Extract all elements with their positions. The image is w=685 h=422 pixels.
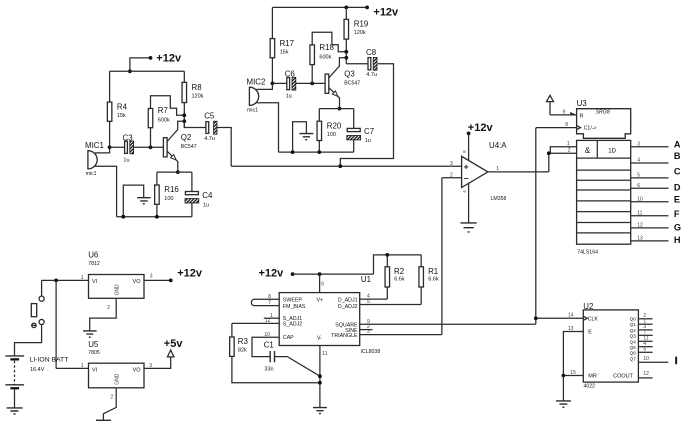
wire: output QB pin 4 xyxy=(631,162,669,164)
wire: R pin 9 xyxy=(550,114,577,116)
wire: output QD pin 6 xyxy=(631,187,669,189)
wire: +12v to R1 R2 top rail xyxy=(374,255,422,274)
battery LI-ION BATT xyxy=(5,356,68,408)
wire: feedback -input to TRIANGLE xyxy=(441,178,443,335)
svg-text:R18: R18 xyxy=(319,43,334,52)
svg-text:TRIANGLE: TRIANGLE xyxy=(331,333,358,339)
power +12v tap op-amp xyxy=(467,122,494,161)
svg-text:82k: 82k xyxy=(238,348,247,354)
wire: U6 input pin 1 xyxy=(42,279,89,281)
resistor R4 xyxy=(107,71,127,147)
resistor R3 xyxy=(230,323,320,382)
svg-text:4022: 4022 xyxy=(584,383,596,389)
svg-text:5: 5 xyxy=(367,299,370,305)
svg-text:MIC1: MIC1 xyxy=(85,141,104,150)
ground: stage1 earth xyxy=(123,185,150,217)
svg-text:R16: R16 xyxy=(164,185,179,194)
svg-text:3: 3 xyxy=(367,329,370,335)
svg-text:C3: C3 xyxy=(123,133,134,142)
svg-text:1u: 1u xyxy=(123,158,129,164)
svg-text:SWEEP: SWEEP xyxy=(283,297,303,303)
svg-text:D: D xyxy=(674,183,681,193)
power +12v terminal xyxy=(169,279,173,283)
svg-text:14: 14 xyxy=(568,313,574,319)
wire: Q0 stub pin 2 xyxy=(638,318,652,320)
IC U2 box xyxy=(583,302,638,389)
ground: U2 earth xyxy=(556,376,571,408)
svg-text:H: H xyxy=(674,235,681,245)
wire: E pin 13 xyxy=(563,332,583,376)
svg-text:R: R xyxy=(580,114,584,120)
svg-text:6.6k: 6.6k xyxy=(394,277,405,283)
svg-text:R19: R19 xyxy=(354,20,369,29)
wire: V- pin 11 down xyxy=(319,346,321,408)
resistor R2 xyxy=(385,255,405,299)
svg-text:V-: V- xyxy=(317,336,322,342)
capacitor C8 xyxy=(340,48,393,166)
svg-text:600k: 600k xyxy=(158,118,170,124)
ground: U1 earth xyxy=(313,408,327,414)
svg-text:FM_BIAS: FM_BIAS xyxy=(283,304,306,310)
svg-text:10: 10 xyxy=(637,196,643,202)
wire: output QA pin 3 xyxy=(631,146,669,148)
capacitor C7 xyxy=(347,109,374,153)
svg-text:+12v: +12v xyxy=(156,53,182,65)
svg-text:100: 100 xyxy=(327,132,336,138)
svg-text:4: 4 xyxy=(637,158,640,164)
wire: output QF pin 11 xyxy=(631,215,669,217)
svg-text:Q0: Q0 xyxy=(630,317,637,322)
power +12v tap stage1 xyxy=(128,53,182,74)
svg-text:15k: 15k xyxy=(117,113,126,119)
wire: Q3 collector to node xyxy=(329,58,347,78)
svg-text:15k: 15k xyxy=(280,49,289,55)
resistor R19 xyxy=(344,7,369,51)
node: R17/C6/MIC2 junction xyxy=(271,82,275,86)
wire: MR pin 15 xyxy=(563,375,583,377)
resistor R20 xyxy=(317,109,342,153)
node: R19/R18/collector junction dots xyxy=(345,52,347,64)
regulator U5 7805 xyxy=(88,340,144,388)
svg-text:10: 10 xyxy=(264,332,270,338)
svg-text:F: F xyxy=(674,209,680,219)
node: data junction xyxy=(547,151,551,155)
svg-text:Q3: Q3 xyxy=(344,70,355,79)
resistor R16 xyxy=(155,172,180,217)
svg-text:GND: GND xyxy=(115,284,121,296)
svg-text:–: – xyxy=(464,173,469,183)
svg-text:Q2: Q2 xyxy=(630,328,637,333)
wire: C1 to V- node diagonal xyxy=(275,357,320,377)
svg-text:VI: VI xyxy=(92,368,98,374)
svg-text:R2: R2 xyxy=(394,267,404,276)
svg-text:9: 9 xyxy=(563,109,566,115)
svg-text:VO: VO xyxy=(133,279,142,285)
svg-text:U3: U3 xyxy=(577,99,588,108)
wire: Q2 collector to node xyxy=(167,121,184,141)
IC U1 box xyxy=(279,275,380,355)
resistor R1 xyxy=(419,255,439,305)
transistor Q3 xyxy=(325,70,360,109)
wire: U6 ground pin 2 xyxy=(90,298,117,331)
svg-text:Q5: Q5 xyxy=(630,345,637,350)
svg-text:Q2: Q2 xyxy=(181,133,192,142)
wire: op-amp -input xyxy=(442,177,462,179)
transistor Q2 xyxy=(163,133,196,172)
svg-text:CLK: CLK xyxy=(588,316,599,322)
svg-text:3: 3 xyxy=(150,274,153,280)
svg-text:12: 12 xyxy=(643,371,649,377)
svg-text:10: 10 xyxy=(643,356,649,362)
svg-text:1: 1 xyxy=(496,166,499,172)
wire: stage2 bottom rail xyxy=(279,151,354,153)
svg-text:D_ADJ1: D_ADJ1 xyxy=(338,297,358,303)
svg-text:1u: 1u xyxy=(286,94,292,100)
wire: op-amp output xyxy=(488,171,549,173)
svg-text:1u: 1u xyxy=(203,202,209,208)
svg-text:LI-ION BATT: LI-ION BATT xyxy=(30,357,69,364)
svg-text:Q6: Q6 xyxy=(630,351,637,356)
svg-text:V+: V+ xyxy=(317,297,324,303)
svg-text:COOUT: COOUT xyxy=(613,374,634,380)
svg-text:5: 5 xyxy=(643,347,646,353)
svg-text:11: 11 xyxy=(322,351,327,357)
node: E/MR junction xyxy=(562,374,566,378)
wire: Q6 stub pin 5 xyxy=(638,351,652,353)
svg-text:1: 1 xyxy=(81,363,84,369)
svg-text:U2: U2 xyxy=(583,302,593,311)
wire: TRIANGLE pin 3 to op-amp feedback xyxy=(360,334,442,336)
node: R8/R7/collector junction dots xyxy=(183,115,185,127)
svg-text:&: & xyxy=(585,146,591,155)
svg-text:C7: C7 xyxy=(364,127,374,136)
svg-text:C1: C1 xyxy=(264,340,274,349)
svg-text:C5: C5 xyxy=(204,111,215,120)
wire: stage1 bottom rail xyxy=(117,216,192,218)
svg-text:MR: MR xyxy=(588,374,597,380)
wire: D_ADJ2 pin 5 to R1 xyxy=(360,304,422,306)
svg-text:R1: R1 xyxy=(428,267,438,276)
capacitor C3 xyxy=(110,133,164,163)
wire: SQUARE pin 9 to U2 clock xyxy=(360,323,536,325)
svg-text:7812: 7812 xyxy=(88,261,100,267)
svg-text:R7: R7 xyxy=(158,106,168,115)
node: C6/R18/Q3 base junction xyxy=(310,82,314,86)
wire: SWEEP/FM_BIAS loop pins 8 7 xyxy=(251,299,279,305)
svg-text:3: 3 xyxy=(149,363,152,369)
wire: U5 ground pin 2 xyxy=(103,388,116,421)
microphone MIC1 xyxy=(85,141,117,217)
node: Q2 emitter junction xyxy=(176,170,180,174)
node: R2 top junction xyxy=(385,253,389,257)
op-amp U4:A xyxy=(462,141,508,202)
switch SW1 xyxy=(15,280,45,356)
svg-text:U6: U6 xyxy=(88,251,99,260)
wire: COOUT stub pin 12 xyxy=(638,377,652,379)
svg-text:+12v: +12v xyxy=(468,122,494,134)
wire: SINE stub pin 2 xyxy=(360,329,373,331)
svg-text:G: G xyxy=(674,222,681,232)
svg-text:+12v: +12v xyxy=(259,267,285,279)
svg-text:C6: C6 xyxy=(285,69,296,78)
ground: U5 earth xyxy=(96,419,111,421)
node: Q3 emitter junction xyxy=(338,107,342,111)
wire: clock pin 8 xyxy=(536,127,577,129)
svg-text:2: 2 xyxy=(107,305,110,311)
svg-text:S_ADJ2: S_ADJ2 xyxy=(283,322,302,328)
svg-text:C1/->: C1/-> xyxy=(584,126,597,132)
svg-text:1u: 1u xyxy=(365,138,371,144)
wire: output QH pin 13 xyxy=(631,240,669,242)
wire: emitter node rail stage2 xyxy=(319,108,353,110)
wire: Q1 stub pin 1 xyxy=(638,323,652,325)
regulator U6 7812 xyxy=(88,251,144,299)
svg-text:Q4: Q4 xyxy=(630,339,637,344)
svg-text:15: 15 xyxy=(570,370,576,376)
svg-text:+12v: +12v xyxy=(373,7,399,19)
IC U3 register cells xyxy=(577,140,631,255)
resistor R7 xyxy=(148,96,184,148)
power arrow U3 reset xyxy=(547,95,554,115)
capacitor C4 xyxy=(185,172,213,217)
ground: stage2 earth xyxy=(293,122,314,152)
wire: feed to U5 input xyxy=(55,280,57,368)
wire: CAP pin 10 to C1 xyxy=(252,337,279,356)
svg-text:2: 2 xyxy=(110,395,113,401)
svg-text:33n: 33n xyxy=(264,367,273,373)
svg-text:C: C xyxy=(674,166,681,176)
wire: U5 output pin 3 to +5v xyxy=(144,357,171,368)
node: R4/C3/MIC1 junction xyxy=(108,145,112,149)
svg-text:1: 1 xyxy=(81,275,84,281)
wire: audio rail to op-amp +input xyxy=(231,165,461,167)
svg-text:1: 1 xyxy=(567,141,570,147)
svg-text:VO: VO xyxy=(133,368,142,374)
resistor R8 xyxy=(182,71,204,115)
wire: output QE pin 10 xyxy=(631,201,669,203)
ground: U6 earth xyxy=(83,331,97,337)
svg-text:16.4V: 16.4V xyxy=(30,367,45,373)
svg-text:U1: U1 xyxy=(361,275,371,284)
wire: Q2 stub pin 3 xyxy=(638,329,652,331)
svg-text:mic1: mic1 xyxy=(86,171,97,177)
wire: U6 output pin 3 xyxy=(144,279,171,281)
ground: op-amp V- earth xyxy=(461,183,477,232)
wire: Q3 stub pin 7 xyxy=(638,334,652,336)
svg-text:100: 100 xyxy=(164,196,173,202)
svg-text:3: 3 xyxy=(637,141,640,147)
node: R3 junction xyxy=(318,381,322,385)
svg-text:+: + xyxy=(464,162,469,172)
svg-text:2: 2 xyxy=(450,172,453,178)
node: C8 joins audio rail xyxy=(338,164,342,168)
capacitor C5 xyxy=(184,111,231,166)
svg-text:Q1: Q1 xyxy=(630,322,637,327)
wire: Q4 stub pin 11 xyxy=(638,340,652,342)
node: C1 junction xyxy=(318,374,322,378)
wire: U5 input pin 1 xyxy=(56,367,88,369)
wire: S_ADJ2 pin 12 to R3 xyxy=(232,322,279,324)
wire: pin 6 V+ xyxy=(319,274,321,293)
node: ground rail junctions xyxy=(121,215,125,219)
svg-text:ICL8038: ICL8038 xyxy=(361,349,381,355)
resistor R18 xyxy=(310,32,346,83)
wire: output QC pin 5 xyxy=(631,177,669,179)
svg-text:6: 6 xyxy=(637,183,640,189)
wire: output QG pin 12 xyxy=(631,227,669,229)
svg-text:R20: R20 xyxy=(327,121,342,130)
svg-text:12: 12 xyxy=(265,318,271,324)
capacitor C1 xyxy=(264,340,275,372)
svg-text:C4: C4 xyxy=(202,191,213,200)
svg-text:5: 5 xyxy=(637,173,640,179)
svg-text:mic1: mic1 xyxy=(247,108,258,114)
wire: clock rail up to U3 pin8 and to CLK xyxy=(536,128,584,325)
wire: Q7 pin 10 to terminal I xyxy=(638,361,668,363)
svg-text:A: A xyxy=(674,139,681,149)
svg-text:12: 12 xyxy=(637,223,643,229)
svg-text:13: 13 xyxy=(637,236,643,242)
svg-text:+5v: +5v xyxy=(164,338,184,350)
pin dart R xyxy=(570,112,576,115)
node: stage2 rail junctions xyxy=(291,150,295,154)
power +12v rail stage2 xyxy=(272,6,399,19)
svg-text:MIC2: MIC2 xyxy=(247,78,266,87)
node: VI feed junction xyxy=(54,279,58,283)
svg-text:BC547: BC547 xyxy=(181,144,197,150)
node: clock junction xyxy=(534,316,538,320)
svg-text:11: 11 xyxy=(637,210,642,216)
wire: Q5 stub pin 4 xyxy=(638,346,652,348)
resistor R17 xyxy=(270,7,294,83)
svg-text:R4: R4 xyxy=(117,102,128,111)
svg-text:E: E xyxy=(674,195,680,205)
microphone MIC2 xyxy=(247,78,279,153)
ground: battery earth xyxy=(7,408,23,414)
svg-text:7: 7 xyxy=(268,300,271,306)
svg-text:600k: 600k xyxy=(319,55,331,61)
svg-text:BC547: BC547 xyxy=(344,80,360,86)
svg-text:B: B xyxy=(674,151,681,161)
wire: stage1 +12v rail xyxy=(110,70,185,72)
svg-text:U4:A: U4:A xyxy=(489,141,507,150)
svg-text:1D: 1D xyxy=(608,148,616,154)
svg-text:CAP: CAP xyxy=(283,335,294,341)
wire: emitter node rail xyxy=(157,171,192,173)
node: V+ pin6 junction xyxy=(318,272,322,276)
svg-text:Q7: Q7 xyxy=(630,356,637,361)
svg-text:SRG8: SRG8 xyxy=(596,109,610,115)
svg-text:8: 8 xyxy=(268,294,271,300)
capacitor C6 xyxy=(272,69,325,99)
svg-text:6: 6 xyxy=(321,282,324,288)
svg-text:7805: 7805 xyxy=(88,350,100,356)
svg-text:+12v: +12v xyxy=(177,267,203,279)
wire: S_ADJ1 stub pin 1 xyxy=(264,317,279,319)
svg-text:6.6k: 6.6k xyxy=(428,277,439,283)
svg-text:3: 3 xyxy=(450,161,453,167)
svg-text:4.7u: 4.7u xyxy=(204,136,215,142)
node I terminal xyxy=(675,357,677,365)
svg-text:GND: GND xyxy=(115,373,121,385)
power +12v tap U1 xyxy=(259,267,374,279)
svg-text:R8: R8 xyxy=(192,83,203,92)
svg-text:D_ADJ2: D_ADJ2 xyxy=(338,304,358,310)
svg-text:R17: R17 xyxy=(280,39,294,48)
power +5v arrow xyxy=(164,338,184,357)
svg-text:U5: U5 xyxy=(88,340,99,349)
svg-text:120k: 120k xyxy=(192,94,204,100)
svg-text:VI: VI xyxy=(92,279,98,285)
svg-text:4.7u: 4.7u xyxy=(366,72,377,78)
wire: D_ADJ1 pin 4 to R2 xyxy=(360,298,388,300)
svg-text:R3: R3 xyxy=(238,337,249,346)
wire: output up to U3 data pins xyxy=(549,147,577,172)
svg-text:13: 13 xyxy=(568,326,574,332)
svg-text:Q3: Q3 xyxy=(630,334,637,339)
svg-text:2: 2 xyxy=(568,148,571,154)
node: C3/R7/Q2 base junction xyxy=(149,145,153,149)
IC U3 control block xyxy=(577,99,631,138)
svg-text:E: E xyxy=(588,330,592,336)
svg-text:C8: C8 xyxy=(366,48,377,57)
svg-text:LM358: LM358 xyxy=(491,196,507,202)
svg-text:120k: 120k xyxy=(354,30,366,36)
svg-text:74LS164: 74LS164 xyxy=(577,249,598,255)
